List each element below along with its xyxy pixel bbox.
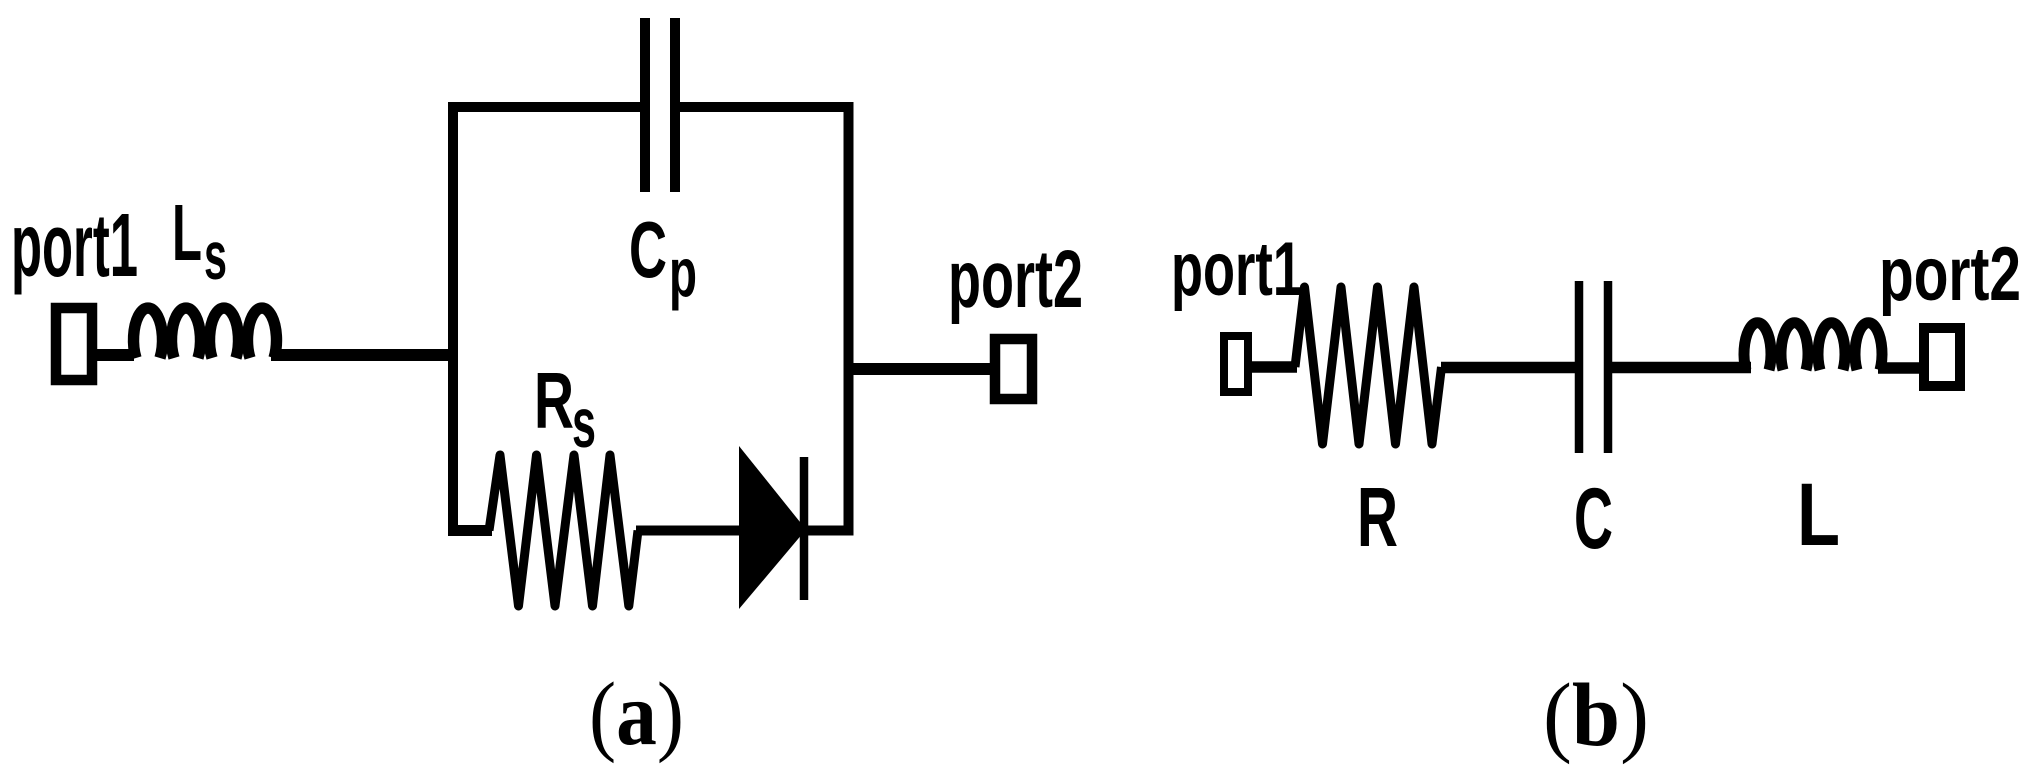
bottom rail left wire bbox=[448, 525, 492, 536]
svg-text:L: L bbox=[1797, 464, 1840, 564]
svg-text:R: R bbox=[1357, 470, 1398, 564]
wire port1 to Ls bbox=[97, 349, 134, 361]
label Cp bbox=[629, 205, 697, 311]
svg-text:port1: port1 bbox=[11, 196, 138, 296]
port2 terminal square (a) bbox=[995, 339, 1032, 399]
label Ls bbox=[172, 188, 227, 294]
svg-text:R: R bbox=[534, 356, 574, 445]
svg-text:L: L bbox=[172, 188, 202, 277]
top rail left wire bbox=[448, 102, 640, 112]
port1 terminal square (b) bbox=[1224, 336, 1248, 392]
capacitor C bbox=[1579, 281, 1608, 453]
svg-text:port2: port2 bbox=[948, 234, 1083, 325]
label Rs bbox=[534, 356, 596, 462]
wire port1 to R bbox=[1250, 361, 1297, 373]
svg-text:p: p bbox=[669, 234, 697, 311]
wire diode to right edge bbox=[804, 526, 854, 536]
wire Ls to box node bbox=[271, 349, 453, 361]
inductor Ls bbox=[134, 308, 277, 358]
svg-text:port2: port2 bbox=[1879, 232, 2021, 317]
wire Rs to diode bbox=[636, 526, 742, 536]
box right edge wire bbox=[844, 102, 854, 536]
svg-text:s: s bbox=[572, 384, 596, 462]
resistor R bbox=[1295, 287, 1442, 444]
wire C to L bbox=[1612, 362, 1751, 374]
svg-text:(a): (a) bbox=[589, 665, 684, 764]
box left edge wire bbox=[448, 102, 458, 536]
diode D1 bbox=[739, 446, 806, 609]
top rail right wire bbox=[680, 102, 854, 112]
svg-text:C: C bbox=[1574, 471, 1613, 567]
wire node to port2 (a) bbox=[854, 363, 991, 375]
inductor L bbox=[1744, 323, 1882, 370]
wire R to C bbox=[1441, 362, 1575, 374]
svg-text:port1: port1 bbox=[1171, 227, 1302, 312]
svg-text:s: s bbox=[204, 218, 227, 294]
port2 terminal square (b) bbox=[1924, 328, 1960, 386]
port1 terminal square (a) bbox=[56, 308, 92, 380]
capacitor Cp bbox=[645, 18, 675, 192]
svg-text:C: C bbox=[629, 205, 667, 294]
svg-text:(b): (b) bbox=[1543, 666, 1649, 765]
wire L to port2 (b) bbox=[1878, 362, 1920, 374]
resistor Rs bbox=[489, 455, 638, 606]
